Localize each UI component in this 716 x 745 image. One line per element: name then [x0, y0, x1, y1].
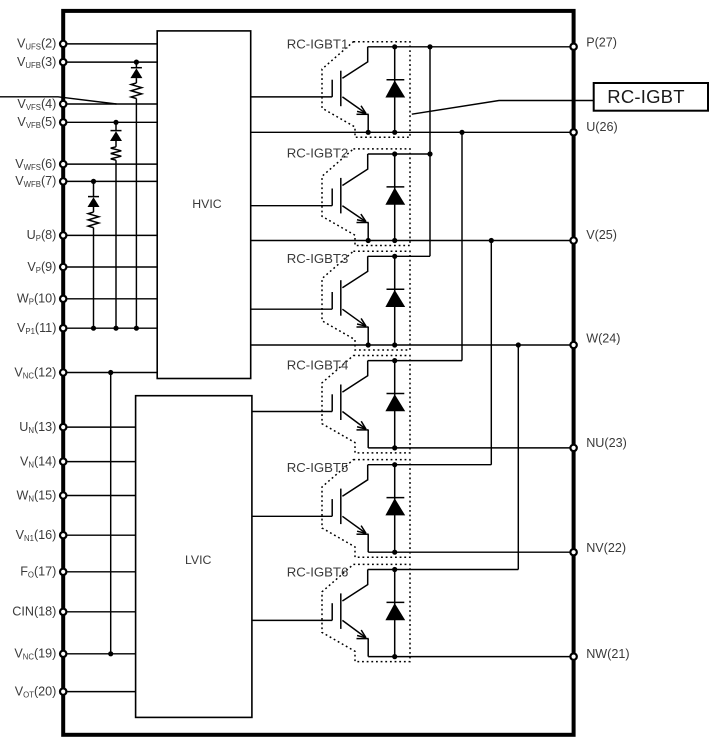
svg-text:RC-IGBT5: RC-IGBT5: [287, 460, 349, 475]
svg-text:W(24): W(24): [586, 332, 620, 346]
svg-text:VP1(11): VP1(11): [17, 321, 56, 336]
svg-text:VVFB(5): VVFB(5): [17, 115, 56, 130]
svg-text:NW(21): NW(21): [586, 647, 629, 661]
svg-text:RC-IGBT2: RC-IGBT2: [287, 146, 349, 161]
svg-text:VOT(20): VOT(20): [15, 684, 57, 699]
svg-text:V(25): V(25): [586, 228, 617, 242]
svg-text:NV(22): NV(22): [586, 541, 626, 555]
svg-text:HVIC: HVIC: [192, 197, 221, 211]
svg-text:VUFB(3): VUFB(3): [17, 55, 56, 70]
svg-text:VP(9): VP(9): [27, 260, 56, 275]
svg-text:WP(10): WP(10): [17, 292, 57, 307]
svg-text:UP(8): UP(8): [27, 228, 57, 243]
svg-text:VUFS(2): VUFS(2): [17, 37, 56, 52]
svg-text:VWFB(7): VWFB(7): [15, 174, 56, 189]
svg-text:FO(17): FO(17): [20, 565, 56, 580]
svg-text:RC-IGBT4: RC-IGBT4: [287, 358, 349, 373]
svg-text:RC-IGBT6: RC-IGBT6: [287, 564, 349, 579]
svg-text:VNC(12): VNC(12): [14, 365, 56, 380]
svg-text:CIN(18): CIN(18): [12, 605, 56, 619]
svg-text:NU(23): NU(23): [586, 436, 627, 450]
svg-text:U(26): U(26): [586, 120, 618, 134]
svg-text:P(27): P(27): [586, 35, 617, 49]
svg-text:VN(14): VN(14): [20, 454, 56, 469]
svg-text:VVFS(4): VVFS(4): [17, 97, 56, 112]
svg-text:LVIC: LVIC: [185, 553, 212, 567]
svg-text:RC-IGBT: RC-IGBT: [607, 86, 684, 107]
svg-text:RC-IGBT3: RC-IGBT3: [287, 251, 349, 266]
svg-text:WN(15): WN(15): [16, 488, 56, 503]
svg-text:VWFS(6): VWFS(6): [15, 157, 56, 172]
svg-text:VNC(19): VNC(19): [14, 647, 56, 662]
svg-text:RC-IGBT1: RC-IGBT1: [287, 37, 349, 52]
svg-text:UN(13): UN(13): [19, 420, 56, 435]
svg-text:VN1(16): VN1(16): [16, 528, 57, 543]
